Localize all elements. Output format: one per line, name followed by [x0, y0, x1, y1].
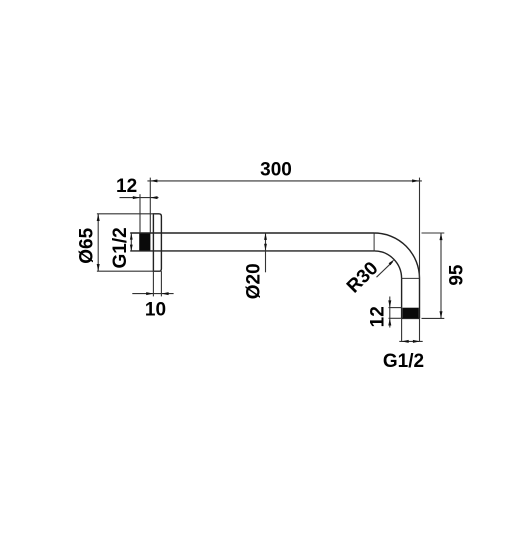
dimension 12 (outlet): bottom arrow (outside, points up)	[388, 318, 391, 325]
svg-text:95: 95	[447, 264, 468, 286]
dimension 12 (outlet thread): dimension line	[389, 297, 391, 328]
bend tangent tick (end of bend)	[402, 277, 420, 279]
tube top line	[130, 232, 374, 234]
dimension 10: right extension line	[160, 271, 162, 296]
dimension 12 (top): dimension line	[120, 197, 159, 199]
vertical tube left edge	[401, 278, 403, 318]
dimension Ø65: top extension line (plate top)	[97, 213, 155, 215]
tube bottom line	[130, 250, 374, 252]
svg-text:12: 12	[368, 306, 389, 327]
dimension G1/2 (outlet): right extension line	[419, 318, 421, 341]
svg-text:12: 12	[116, 176, 137, 197]
vertical tube right edge	[419, 278, 421, 318]
dimension G1/2 (wall thread): bottom arrow	[130, 245, 133, 251]
dimension G1/2 (outlet): left extension line	[401, 318, 403, 341]
dimension Ø20: bottom arrow	[264, 244, 267, 251]
bend outer arc R	[374, 233, 419, 278]
dimension 10 (plate thickness): dimension line	[132, 293, 173, 295]
dimension Ø20 (tube): dimension line with tail	[265, 233, 267, 272]
dimension G1/2 (wall thread): dimension line	[130, 233, 132, 251]
dimension Ø65: bottom arrow	[97, 264, 100, 271]
dimension Ø65: dimension line	[97, 214, 99, 271]
bend tangent tick (start of bend)	[373, 233, 375, 251]
dimension R30: leader line	[377, 262, 393, 277]
dimension Ø20: top arrow	[264, 233, 267, 240]
dimension 300: dimension line	[147, 180, 422, 182]
dimension Ø65: bottom extension line (plate bottom)	[97, 270, 161, 272]
dimension 95: dimension line	[440, 233, 442, 319]
dimension 95: top arrow	[440, 233, 443, 240]
svg-text:300: 300	[260, 160, 292, 181]
dimension 10: left arrow (outside, points right)	[146, 292, 153, 295]
wall-side thread G1/2 (black block)	[139, 233, 150, 251]
dimension 300: left extension line	[149, 178, 151, 233]
svg-text:G1/2: G1/2	[383, 351, 424, 372]
dimension 10: right arrow (outside, points left)	[161, 292, 168, 295]
svg-text:Ø65: Ø65	[76, 227, 97, 263]
outlet thread G1/2 (black block)	[402, 308, 418, 318]
dimension 300: right extension line (tube edge extended)	[419, 178, 421, 279]
dimension 12 (top): right arrow (outside, points left)	[150, 196, 157, 199]
dimension 12 (outlet): bottom extension line	[389, 317, 402, 319]
dimension 95: bottom extension line	[422, 317, 445, 319]
svg-text:Ø20: Ø20	[243, 263, 264, 299]
dimension 12 (top): left arrow (outside, points right)	[133, 196, 140, 199]
dimension G1/2 (outlet): right arrow (inside, points right)	[413, 340, 420, 343]
flange plate (escutcheon, side view)	[153, 214, 161, 271]
dimension Ø65: top arrow	[97, 214, 100, 221]
dimension 12 (top): left extension line	[139, 194, 141, 233]
dimension R30: arrow	[389, 259, 395, 265]
dimension G1/2 (outlet): left arrow (inside, points left)	[402, 340, 409, 343]
dimension G1/2 (outlet width): dimension line	[399, 340, 422, 342]
svg-text:G1/2: G1/2	[110, 227, 131, 268]
dimension 300: right arrow	[412, 179, 419, 182]
dimension G1/2 (wall thread): top arrow	[130, 233, 133, 239]
dimension 300: left arrow	[150, 179, 157, 182]
dimension 12 (outlet): top extension line	[389, 307, 402, 309]
dimension 95: top extension line	[422, 232, 445, 234]
dimension 12 (outlet): top arrow (outside, points down)	[388, 300, 391, 307]
dimension 95: bottom arrow	[440, 311, 443, 318]
bend inner arc R	[374, 251, 402, 279]
svg-text:10: 10	[145, 300, 166, 321]
dimension 10: left extension line	[152, 271, 154, 296]
svg-text:R30: R30	[343, 258, 382, 297]
tube bottom end line	[402, 317, 420, 319]
